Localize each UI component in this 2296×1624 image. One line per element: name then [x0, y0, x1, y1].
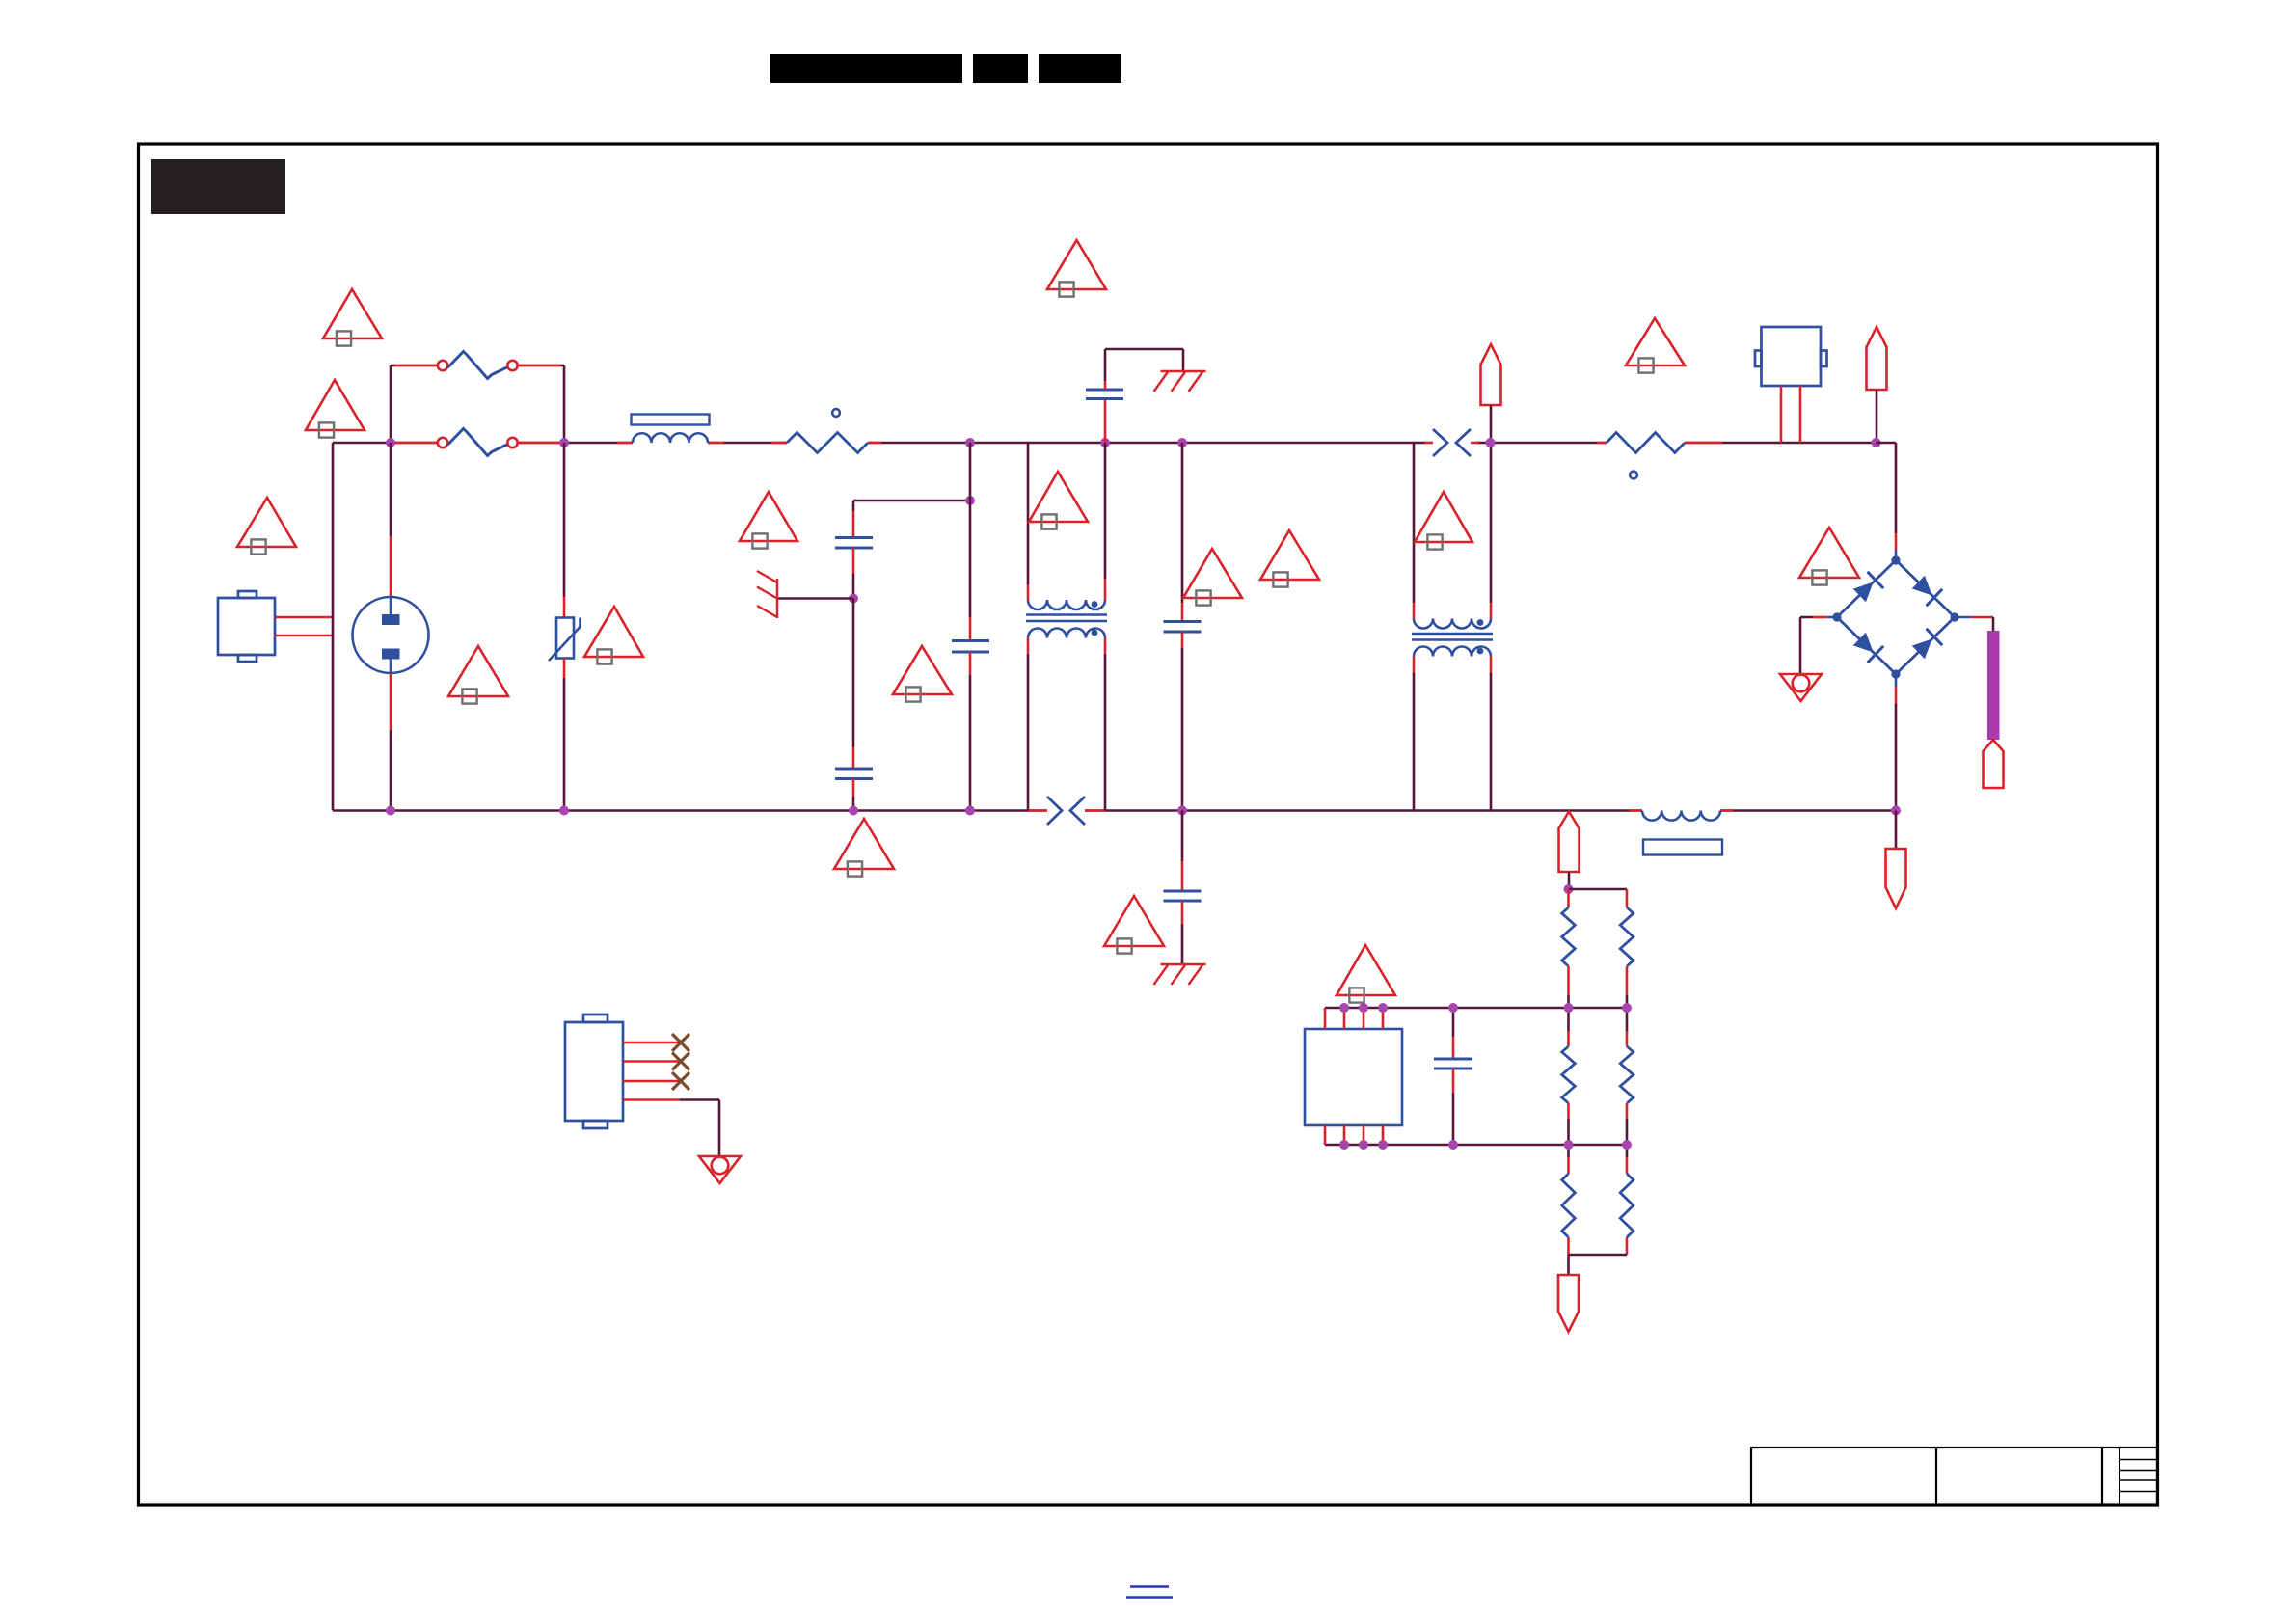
spark gap SG1 (bottom bus)	[1047, 797, 1085, 825]
resistor chain left column (R11/R12/R13)	[1562, 889, 1576, 1255]
wire C2 upper lead	[852, 501, 855, 538]
wire T1 primary-right lead up	[1104, 443, 1107, 600]
junction main-bus x1006	[965, 438, 975, 447]
warning triangle (below bottom bus)	[834, 819, 894, 877]
wire fuse row 1 leads	[391, 365, 564, 367]
black redaction box: document title part 3	[1039, 54, 1121, 83]
chassis ground symbol (top)	[1154, 371, 1206, 392]
wire branch link (x885 top)	[853, 500, 970, 502]
transformer T1 (common-mode choke)	[1026, 600, 1107, 638]
wire CN2 pin1 lead	[1780, 386, 1783, 443]
wire C6 lower lead	[1181, 901, 1184, 964]
connector CN1 (AC inlet)	[218, 591, 275, 662]
warning triangle (left of bridge)	[1799, 528, 1859, 585]
wire flag-B lead	[1876, 390, 1878, 443]
black redaction box: document title part 1	[770, 54, 962, 83]
wire C1 to chassis ground	[1105, 349, 1183, 390]
thermistor RT2	[1607, 433, 1685, 479]
junction x1006 / link	[965, 496, 975, 505]
no-connect X pin3	[672, 1072, 689, 1090]
wire bridge-left to ground	[1800, 617, 1837, 674]
capacitor C5 (x1226)	[1164, 622, 1202, 633]
warning triangle (right of varistor)	[584, 607, 643, 664]
wire x1226 upper	[1181, 443, 1184, 622]
warning triangle (x1226 branch)	[1183, 549, 1242, 606]
varistor RV1	[549, 618, 581, 662]
wire CN3 pin3	[623, 1080, 681, 1083]
capacitor C2	[835, 538, 873, 549]
junction bottom bus / C7	[1448, 1140, 1458, 1150]
no-connect X pin2	[672, 1053, 689, 1070]
wire chain top link	[1569, 888, 1628, 891]
spark gap SG2 (main bus)	[1433, 429, 1471, 456]
wire fuse loop right vertical	[563, 365, 566, 443]
warning triangle (below lamp)	[448, 646, 508, 704]
wire varistor branch lower	[563, 659, 566, 811]
wire T2 primary-right lead up	[1490, 443, 1493, 619]
wire T2 secondary-left lead down	[1413, 657, 1416, 811]
junction bottom-bus x1006	[965, 806, 975, 816]
title block (bottom right)	[1751, 1448, 2157, 1505]
junction main-bus / fuse-loop right	[559, 438, 569, 447]
capacitor C1 (Y-cap)	[1086, 390, 1123, 399]
warning triangle (top of fuse)	[323, 289, 382, 346]
neon lamp / AC receptacle NE1	[353, 597, 429, 673]
junction top bus / left chain	[1564, 1003, 1574, 1013]
connector CN2 (2-pin)	[1755, 327, 1827, 386]
net flag (feedback tap, points up at bottom bus)	[1559, 812, 1580, 873]
connector CN3 (4-pin)	[565, 1015, 623, 1128]
wire T1 primary-left lead up	[1027, 443, 1030, 600]
output bar (redacted net, purple)	[1987, 631, 2000, 740]
wire C2-C3 mid lead	[852, 548, 855, 599]
wire chassis tap horizontal	[777, 597, 853, 600]
wire C1 lower lead	[1104, 399, 1107, 444]
black redaction box: sheet heading	[151, 159, 285, 214]
wire C7 lower lead	[1452, 1069, 1455, 1145]
junction bottom-bus / bridge	[1891, 806, 1901, 816]
signal ground symbol (bridge)	[1780, 674, 1822, 701]
warning triangle (mid area)	[1260, 530, 1319, 587]
wire CN1 pin1 to vertical bus	[275, 616, 333, 619]
wire T1 secondary-left lead down	[1027, 638, 1030, 811]
capacitor C3	[835, 769, 873, 779]
wire AC live main bus (top horizontal)	[333, 442, 1877, 445]
wire IC top bus	[1325, 1007, 1627, 1010]
wire chain bottom link	[1569, 1254, 1628, 1257]
wire T1 secondary-right lead down	[1104, 638, 1107, 811]
chassis ground symbol (left)	[757, 571, 777, 618]
junction bottom bus / right chain	[1622, 1140, 1632, 1150]
schematic sheet border frame	[139, 144, 2158, 1505]
warning triangle (top center)	[1047, 240, 1106, 297]
wire AC neutral bottom bus (bottom horizontal)	[333, 809, 1896, 812]
wire CN2 pin2 lead	[1799, 386, 1802, 443]
warning triangle (above RT2)	[1626, 318, 1685, 373]
junction main-bus x1226	[1177, 438, 1187, 447]
warning triangle (above chassis tap)	[740, 492, 797, 549]
IC U1 (control IC)	[1305, 1029, 1402, 1125]
no-connect X pin1	[672, 1034, 689, 1051]
wire bridge-bottom to bottom bus	[1895, 674, 1898, 811]
wire x1006 lower	[969, 652, 972, 811]
wire varistor branch upper	[563, 443, 566, 618]
capacitor C4	[952, 641, 989, 653]
footer link line 2	[1126, 1596, 1173, 1598]
wire flag-C lead	[1568, 872, 1571, 889]
fuse F1 (top)	[438, 352, 518, 379]
inductor L1 (with core bar)	[632, 415, 710, 444]
wire x1006 vertical	[969, 443, 972, 641]
wire C7 upper lead	[1452, 1008, 1455, 1059]
wire C6 upper lead	[1181, 811, 1184, 892]
wire to chain bottom flag	[1567, 1255, 1570, 1275]
wire CN3 pin2	[623, 1060, 681, 1063]
wire U1 top pins	[1325, 1008, 1383, 1029]
resistor chain right column (R21/R22/R23)	[1620, 889, 1634, 1255]
signal ground symbol (CN3)	[699, 1156, 741, 1183]
warning triangle (above T1)	[1029, 472, 1088, 529]
transformer T2	[1412, 619, 1493, 657]
capacitor C7 (IC decoupling)	[1434, 1059, 1472, 1069]
net flag (above T2 junction)	[1481, 344, 1501, 405]
wire x1226 lower	[1181, 632, 1184, 811]
wire CN1 pin2 to vertical bus	[275, 635, 333, 637]
junction bottom-bus / C3 branch	[849, 806, 858, 816]
warning triangle (left of fuse)	[306, 380, 365, 438]
wire U1 bottom pins	[1325, 1125, 1383, 1145]
junction main-bus x1546	[1486, 438, 1496, 447]
junction top bus / right chain	[1622, 1003, 1632, 1013]
footer link line 1	[1130, 1585, 1169, 1587]
junction top bus / C7	[1448, 1003, 1458, 1013]
net flag (below bridge, pointing down)	[1886, 849, 1906, 908]
wire main-bus to bridge top	[1877, 443, 1897, 560]
warning triangle (above T2)	[1415, 492, 1472, 550]
warning triangle (above U1)	[1337, 945, 1395, 1003]
junction bottom bus / left chain	[1564, 1140, 1574, 1150]
wire IC bottom bus	[1325, 1144, 1627, 1147]
wire T2 primary-left lead up	[1413, 443, 1416, 619]
junction main-bus x1146	[1100, 438, 1110, 447]
junction bottom-bus / lamp branch	[386, 806, 395, 816]
net flag (below output bar)	[1984, 740, 2004, 788]
wire CN3 pin1	[623, 1042, 681, 1044]
wire T2 secondary-right lead down	[1490, 657, 1493, 811]
inductor L2 (with core bar)	[1642, 811, 1722, 855]
fuse F2 (bottom, on main bus)	[438, 429, 518, 456]
wire fuse loop left vertical	[390, 365, 392, 443]
warning triangle (left of C6)	[1104, 896, 1164, 954]
wire bridge-right to output	[1955, 617, 1993, 631]
wire CN3 pin4 to ground	[623, 1100, 719, 1157]
black redaction box: document title part 2	[973, 54, 1028, 83]
junction resistor-chain top	[1564, 884, 1574, 894]
warning triangle (near C4)	[893, 646, 952, 702]
bridge rectifier D1 (diode bridge)	[1832, 555, 1958, 678]
junctions U1 top pins	[1339, 1003, 1388, 1013]
wire lamp branch upper	[390, 443, 392, 597]
wire C3 upper lead	[852, 599, 855, 770]
junction main-bus x1946	[1872, 438, 1881, 447]
wire left vertical (x=345)	[332, 443, 335, 811]
wire flag-A lead	[1490, 405, 1493, 443]
wire lamp branch lower	[390, 673, 392, 811]
wire C3 lower lead	[852, 779, 855, 811]
junction bottom-bus x1226	[1177, 806, 1187, 816]
wire to bottom flag	[1895, 811, 1898, 850]
net flag (above bridge feed)	[1867, 327, 1887, 390]
chassis ground symbol (bottom)	[1154, 964, 1206, 985]
thermistor RT1	[787, 409, 868, 452]
net flag (below resistor chain, pointing down)	[1558, 1275, 1579, 1332]
junctions U1 bottom pins	[1339, 1140, 1388, 1150]
junction chassis-tap (x885)	[849, 594, 858, 604]
capacitor C6 (Y-cap to chassis)	[1164, 891, 1202, 901]
junction main-bus / fuse-loop left	[386, 438, 395, 447]
junction bottom-bus / varistor branch	[559, 806, 569, 816]
warning triangle (left of lamp)	[237, 498, 296, 555]
